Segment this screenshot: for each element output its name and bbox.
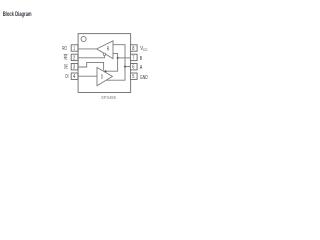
svg-text:4: 4 — [73, 74, 75, 80]
svg-text:5: 5 — [132, 74, 134, 80]
svg-text:3: 3 — [73, 65, 75, 71]
pin 4 box — [71, 73, 78, 79]
wire RO to receiver tip — [78, 48, 97, 50]
wire B branch down to driver inverting output — [106, 58, 118, 71]
svg-text:SP3485: SP3485 — [101, 95, 116, 101]
wire A branch down to driver non-inverting output — [106, 67, 125, 81]
receiver enable bubble — [103, 53, 105, 55]
wire receiver upper input stub to A branch — [113, 45, 125, 67]
pin 2 box — [71, 54, 78, 60]
svg-text:R: R — [107, 47, 110, 53]
svg-text:D: D — [101, 74, 103, 80]
label VCC — [140, 46, 148, 53]
pin 3 box — [71, 64, 78, 70]
svg-text:8: 8 — [132, 46, 134, 52]
svg-text:DI: DI — [65, 74, 68, 80]
wire A line to pin 6 — [125, 66, 131, 68]
junction dot B — [117, 57, 119, 59]
junction dot driver top edge — [104, 70, 106, 72]
svg-text:A: A — [140, 65, 143, 71]
svg-text:RO: RO — [62, 46, 67, 52]
svg-text:B: B — [140, 56, 143, 62]
svg-text:6: 6 — [132, 65, 134, 71]
wire RE run to enable bubble — [78, 55, 104, 57]
driver D — [97, 68, 112, 86]
svg-text:DE: DE — [64, 64, 68, 70]
pin 7 box — [130, 54, 137, 60]
pin 1 box — [71, 45, 78, 51]
svg-text:2: 2 — [73, 55, 75, 61]
receiver R — [97, 41, 113, 59]
wire B line to pin 7 — [118, 57, 131, 59]
junction dot A — [124, 66, 126, 68]
svg-text:GND: GND — [140, 75, 148, 81]
svg-text:RE: RE — [64, 55, 68, 61]
pin 6 box — [130, 64, 137, 70]
pin 5 box — [130, 73, 137, 79]
overline on RE — [64, 54, 68, 56]
svg-text:1: 1 — [73, 46, 75, 52]
IC package body — [78, 34, 131, 93]
wire receiver lower input stub to B junction — [113, 53, 118, 58]
pin 1 indicator circle — [81, 36, 86, 41]
wire DE run to driver enable — [78, 62, 104, 70]
svg-text:7: 7 — [132, 55, 134, 61]
svg-text:Block Diagram: Block Diagram — [3, 11, 32, 18]
wire DI to driver input — [78, 75, 97, 77]
pin 8 box — [130, 45, 137, 51]
